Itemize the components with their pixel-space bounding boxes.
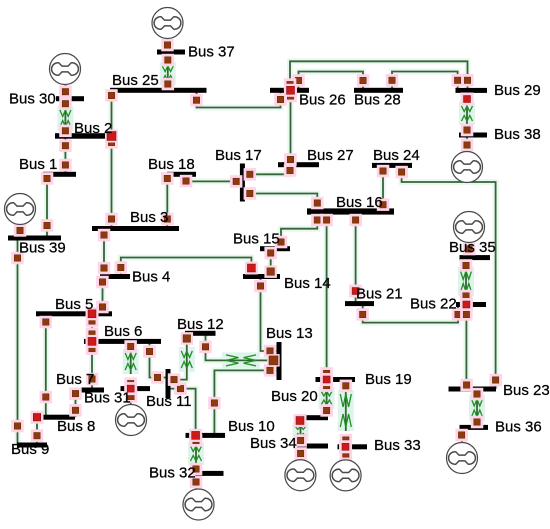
breaker bus25-bus26 a xyxy=(190,94,203,107)
breaker bus4-bus5 top xyxy=(96,276,109,289)
breaker bus24-bus23 b xyxy=(489,374,502,387)
wire stub gen35 xyxy=(466,243,472,258)
breaker bus13-bus10 a xyxy=(264,364,277,377)
breaker xf23-36 a xyxy=(471,388,484,401)
wire bus39-bus9 xyxy=(15,238,21,445)
breaker bus26-bus27 b xyxy=(284,153,297,166)
breaker xf12-13 a xyxy=(199,341,212,354)
breaker xf35-22 a xyxy=(460,259,473,272)
breaker gen34 xyxy=(294,447,307,460)
breaker bus5-bus8 top xyxy=(40,316,53,329)
svg-text:Bus 11: Bus 11 xyxy=(146,393,192,410)
transformer T bus29-bus38 xyxy=(459,102,475,125)
svg-text:Bus 20: Bus 20 xyxy=(271,388,318,405)
junction bus5 at x92 xyxy=(86,307,99,320)
transformer T bus12-bus11 xyxy=(179,347,195,372)
transformer T bus30-bus2 xyxy=(57,106,73,131)
wire stub gen34 xyxy=(297,446,303,460)
generator G31 xyxy=(116,405,147,436)
bus 39 busbar xyxy=(8,236,61,241)
bus 23 busbar xyxy=(449,387,497,392)
svg-text:Bus 31: Bus 31 xyxy=(84,390,131,407)
bus 16 busbar xyxy=(307,208,394,214)
breaker bus2-bus1 top xyxy=(59,139,71,152)
bus 6 busbar xyxy=(84,339,161,344)
breaker gen36 xyxy=(455,429,468,442)
svg-text:Bus 2: Bus 2 xyxy=(74,120,112,137)
svg-text:Bus 25: Bus 25 xyxy=(112,72,159,89)
svg-text:Bus 30: Bus 30 xyxy=(9,91,56,108)
breaker bus2-bus1 bottom xyxy=(59,159,71,172)
svg-text:Bus 14: Bus 14 xyxy=(284,275,331,292)
wire bus1-bus39 xyxy=(44,174,50,238)
svg-text:Bus 39: Bus 39 xyxy=(19,240,66,257)
breaker xf19-33 a xyxy=(340,380,353,393)
breaker bus6-bus7 a xyxy=(86,342,99,355)
wire bus26-bus27 xyxy=(288,90,294,164)
svg-text:Bus 1: Bus 1 xyxy=(19,156,57,173)
breaker bus4-bus14 left xyxy=(115,261,128,274)
bus 24 busbar xyxy=(372,163,412,168)
wire bus8-bus9 xyxy=(34,417,40,445)
breaker gen39 xyxy=(14,224,26,237)
breaker xf20-34 a xyxy=(294,434,307,447)
svg-text:Bus 33: Bus 33 xyxy=(374,437,421,454)
breaker bus6-bus7 b xyxy=(86,373,99,386)
bus 14 busbar xyxy=(243,274,280,279)
breaker bus13-bus14 b xyxy=(254,280,267,293)
breaker xf10-32 a xyxy=(190,434,203,447)
bus 5 busbar xyxy=(36,311,112,316)
svg-text:Bus 29: Bus 29 xyxy=(494,82,541,99)
wire bus16-bus21 xyxy=(353,212,359,304)
wire bus25-bus2 xyxy=(109,90,115,136)
svg-text:Bus 28: Bus 28 xyxy=(354,92,401,109)
svg-text:Bus 9: Bus 9 xyxy=(11,441,49,458)
wire bus16-bus24 xyxy=(380,165,386,211)
junction xf29-38 a xyxy=(461,93,474,106)
junction bus10 left xyxy=(189,429,202,442)
svg-text:Bus 10: Bus 10 xyxy=(228,418,275,435)
svg-text:Bus 12: Bus 12 xyxy=(177,316,224,333)
wire bus17-bus27 xyxy=(245,165,290,175)
breaker bus1-bus39 top xyxy=(41,172,54,185)
breaker bus18-bus3 bottom xyxy=(161,213,174,226)
svg-text:Bus 36: Bus 36 xyxy=(495,419,542,436)
breaker bus22-bus23 a xyxy=(460,308,473,321)
transformer T bus12-bus13 xyxy=(222,352,260,368)
wire bus21-bus22 xyxy=(363,304,458,323)
breaker xf37-25 a xyxy=(162,54,175,67)
breaker bus22-bus23 b xyxy=(460,379,473,392)
wire T bus12-bus13 left wire xyxy=(206,333,227,360)
breaker xf12-11 a xyxy=(181,332,194,345)
bus 11 busbar (vertical) xyxy=(166,369,171,398)
svg-text:Bus 18: Bus 18 xyxy=(148,156,195,173)
bus 12 busbar xyxy=(185,331,216,336)
bus 4 busbar xyxy=(100,274,130,279)
breaker gen33 xyxy=(340,448,353,461)
breaker bus4-bus5 bottom xyxy=(96,301,109,314)
wire bus5-bus8 xyxy=(43,314,49,417)
breaker bus26-bus27 a xyxy=(284,90,297,103)
bus 29 busbar xyxy=(456,88,488,93)
transformer T bus23-bus36 xyxy=(469,395,485,421)
wire bus2-bus1 xyxy=(62,136,68,174)
svg-text:Bus 19: Bus 19 xyxy=(365,371,412,388)
bus 33 busbar xyxy=(338,444,368,449)
breaker bus2-bus3 top xyxy=(105,136,118,149)
wire T bus12-bus13 right wire xyxy=(256,357,277,363)
svg-text:Bus 27: Bus 27 xyxy=(307,147,354,164)
generator G30 xyxy=(50,54,81,85)
transformer T bus37-bus25 xyxy=(160,62,176,85)
transformer T bus10-bus32 xyxy=(188,442,204,465)
breaker bus26-bus28 b xyxy=(357,74,370,87)
svg-text:Bus 22: Bus 22 xyxy=(410,296,457,313)
transformer T bus6-bus31 xyxy=(123,349,139,374)
wire stub gen39 xyxy=(17,225,23,239)
bus 31 busbar xyxy=(121,386,151,391)
svg-text:Bus 32: Bus 32 xyxy=(149,465,196,482)
wire bus24-bus23 xyxy=(402,165,496,389)
breaker xf23-36 b xyxy=(471,416,484,429)
wire bus6-bus7 xyxy=(89,341,95,390)
breaker xf19-20 b xyxy=(320,404,333,417)
bus 28 busbar xyxy=(354,88,403,93)
bus 17 busbar (vertical) xyxy=(240,164,245,202)
generator G37 xyxy=(152,8,183,39)
wire bus18-bus3 xyxy=(164,174,170,228)
wire stub gen38 xyxy=(464,135,470,152)
junction bus2 right xyxy=(105,130,118,143)
wire bus16-bus15 xyxy=(281,212,317,249)
svg-text:Bus 37: Bus 37 xyxy=(188,44,235,61)
svg-text:Bus 4: Bus 4 xyxy=(132,269,170,286)
wire bus13-bus14 xyxy=(261,277,277,352)
breaker bus15-bus14 b xyxy=(264,265,277,278)
junction bus4-bus14 right xyxy=(245,262,258,275)
bus 35 busbar xyxy=(460,255,491,260)
breaker xf19-20 a xyxy=(320,379,333,392)
breaker bus5-bus6 b xyxy=(86,328,99,341)
bus 19 busbar xyxy=(316,377,356,382)
generator G36 xyxy=(447,443,478,474)
breaker bus24-bus23 a xyxy=(395,166,408,179)
breaker bus39-bus9 bottom xyxy=(11,420,24,433)
breaker bus39-bus9 top xyxy=(11,252,24,264)
wire stub gen36 xyxy=(459,427,465,442)
breaker gen31 xyxy=(125,390,138,403)
breaker bus26-bus29 b xyxy=(461,74,474,87)
breaker gen37 xyxy=(161,39,174,52)
breaker bus16-bus15 b xyxy=(275,236,288,249)
wire bus7-bus8 xyxy=(73,390,79,417)
breaker bus28-bus29 a xyxy=(386,74,399,87)
svg-text:Bus 13: Bus 13 xyxy=(266,325,313,342)
bus 21 busbar xyxy=(345,301,374,306)
wire stub gen32 xyxy=(193,473,199,489)
breaker bus16-bus19 b xyxy=(320,367,333,380)
wire stub gen37 xyxy=(165,39,171,52)
breaker bus13-bus14 a xyxy=(264,345,277,358)
breaker bus5-bus8 bottom xyxy=(40,391,53,404)
breaker xf30-2 b xyxy=(59,125,71,138)
breaker gen32 xyxy=(190,476,203,489)
svg-text:Bus 5: Bus 5 xyxy=(55,296,93,313)
wire bus4-bus14 xyxy=(121,258,252,277)
bus 9 busbar xyxy=(17,443,47,448)
svg-text:Bus 3: Bus 3 xyxy=(130,209,168,226)
breaker bus21-bus22 b xyxy=(452,308,465,321)
breaker bus8-bus9 xyxy=(31,429,44,442)
breaker xf29-38 b xyxy=(461,124,474,137)
bus 3 busbar xyxy=(92,226,179,231)
junction bus19 at x326 xyxy=(320,373,333,386)
breaker bus16-bus19 a xyxy=(320,214,333,227)
wire bus22-bus23 xyxy=(463,305,469,390)
junction bus16-bus21 b xyxy=(349,285,362,298)
breaker bus11-bus10 a xyxy=(174,382,187,395)
breaker xf10-32 b xyxy=(190,463,203,476)
generator G33 xyxy=(330,460,361,491)
junction bus8 left xyxy=(31,411,44,424)
breaker xf30-2 a xyxy=(59,98,71,111)
breaker bus26-bus29 a xyxy=(284,78,297,91)
generator G35 xyxy=(454,212,485,243)
bus 27 busbar xyxy=(278,162,319,167)
breaker gen35 xyxy=(463,243,476,256)
breaker xf12-13 b xyxy=(267,354,280,367)
wire bus25-bus26 xyxy=(197,90,281,107)
wire bus28-bus29 xyxy=(392,72,458,91)
breaker bus18-bus17 b xyxy=(230,175,243,188)
junction bus22 at x466 xyxy=(460,298,473,311)
breaker bus17-bus27 b xyxy=(284,164,297,177)
breaker bus7-bus8 bottom xyxy=(69,404,82,417)
breaker bus17-bus27 a xyxy=(244,168,257,181)
bus 15 busbar xyxy=(260,246,290,251)
wire bus4-bus5 xyxy=(100,277,106,314)
bus 13 busbar (vertical) xyxy=(277,342,282,380)
breaker gen38 xyxy=(461,139,474,152)
breaker xf6-31 a xyxy=(124,340,136,353)
bus 32 busbar xyxy=(196,471,224,476)
wire stub gen30 xyxy=(62,85,68,99)
svg-text:Bus 6: Bus 6 xyxy=(104,323,142,340)
breaker bus18-bus3 top xyxy=(161,172,174,185)
breaker bus15-bus14 a xyxy=(264,247,277,259)
wire bus3-bus4 xyxy=(101,229,107,277)
svg-text:Bus 7: Bus 7 xyxy=(56,371,94,388)
breaker bus16-bus15 a xyxy=(311,214,324,227)
breaker xf12-11 b xyxy=(168,373,181,386)
generator G38 xyxy=(452,152,483,183)
bus 20 busbar xyxy=(297,415,328,420)
breaker xf19-33 b xyxy=(340,434,353,447)
breaker bus21-bus22 a xyxy=(356,308,369,321)
breaker bus25-bus2 top xyxy=(105,89,118,102)
bus 1 busbar xyxy=(43,172,76,177)
transformer T bus19-bus33 xyxy=(338,390,354,431)
breaker bus5-bus6 a xyxy=(86,315,99,328)
generator G39 xyxy=(5,194,36,225)
svg-text:Bus 16: Bus 16 xyxy=(336,194,383,211)
wire bus26-bus28 xyxy=(299,72,364,91)
bus 2 busbar xyxy=(55,133,114,139)
bus 25 busbar xyxy=(110,88,207,93)
breaker bus26-bus28 a xyxy=(292,74,305,87)
svg-text:Bus 34: Bus 34 xyxy=(250,435,297,452)
wire bus11-bus10 xyxy=(171,389,196,436)
wire bus5-bus6 xyxy=(89,314,95,342)
breaker bus28-bus29 b xyxy=(451,74,464,87)
svg-text:Bus 35: Bus 35 xyxy=(449,239,496,256)
breaker bus7-bus8 top xyxy=(69,387,82,400)
bus 18 busbar xyxy=(167,172,196,177)
breaker bus2-bus3 bottom xyxy=(105,213,118,226)
wire bus18-bus17 xyxy=(186,174,240,181)
breaker bus6-bus11 top xyxy=(143,345,156,358)
junction bus33 at x345 xyxy=(339,440,352,453)
svg-text:Bus 26: Bus 26 xyxy=(299,92,346,109)
junction bus26 center xyxy=(284,84,297,97)
bus 34 busbar xyxy=(297,444,328,449)
breaker bus25-bus26 b xyxy=(274,93,287,106)
breaker xf35-22 b xyxy=(460,290,473,303)
wire bus2-bus3 xyxy=(109,136,115,229)
breaker bus6-bus11 right xyxy=(151,371,164,384)
breaker xf37-25 b xyxy=(162,78,175,91)
breaker bus16-bus24 a xyxy=(377,165,390,178)
wire T bus12-bus11 lower wire xyxy=(171,368,187,380)
transformer T bus35-bus22 xyxy=(458,267,474,296)
bus 36 busbar xyxy=(460,425,489,430)
wire T bus12-bus11 upper wire xyxy=(184,333,190,351)
junction bus31 at x130 xyxy=(124,382,137,395)
breaker gen30 xyxy=(59,86,71,99)
wire bus15-bus14 xyxy=(268,249,274,277)
svg-text:Bus 8: Bus 8 xyxy=(57,418,95,435)
breaker bus13-bus10 b xyxy=(208,397,221,410)
generator G34 xyxy=(285,460,316,491)
wire bus16-bus19 xyxy=(324,212,330,380)
breaker bus1-bus39 bottom xyxy=(41,219,54,232)
svg-text:Bus 23: Bus 23 xyxy=(503,382,550,399)
junction bus6 at x92 xyxy=(86,335,99,348)
breaker bus17-bus16 b xyxy=(311,197,324,210)
breaker xf6-31 b xyxy=(124,377,136,390)
svg-text:Bus 15: Bus 15 xyxy=(233,231,280,248)
junction bus20 left xyxy=(294,414,307,427)
breaker bus16-bus21 a xyxy=(349,214,362,227)
bus 7 busbar xyxy=(73,388,104,393)
bus 30 busbar xyxy=(56,96,84,101)
bus 37 busbar xyxy=(157,50,185,55)
bus 26 busbar xyxy=(270,88,309,93)
wire stub gen33 xyxy=(343,447,349,460)
svg-text:Bus 24: Bus 24 xyxy=(373,147,420,164)
wire bus26-bus29 xyxy=(290,61,468,90)
bus 38 busbar xyxy=(459,133,487,138)
breaker bus18-bus17 a xyxy=(180,175,193,188)
wire bus6-bus11 xyxy=(150,341,166,377)
breaker bus17-bus16 a xyxy=(244,187,257,200)
svg-text:Bus 17: Bus 17 xyxy=(215,147,262,164)
bus 22 busbar xyxy=(456,302,486,307)
bus 8 busbar xyxy=(40,415,76,420)
breaker bus16-bus24 b xyxy=(377,198,390,211)
transformer T bus20-bus34 xyxy=(293,422,309,441)
breaker bus3-bus4 bottom xyxy=(98,262,111,275)
svg-text:Bus 38: Bus 38 xyxy=(494,126,541,143)
bus 10 busbar xyxy=(186,433,226,438)
svg-text:Bus 21: Bus 21 xyxy=(356,286,403,303)
wire stub gen31 xyxy=(128,389,134,405)
breaker bus3-bus4 top xyxy=(98,229,111,242)
transformer T bus19-bus20 xyxy=(319,387,335,409)
wire bus17-bus16 xyxy=(245,194,317,212)
generator G32 xyxy=(183,489,214,520)
wire bus13-bus10 xyxy=(214,370,276,435)
